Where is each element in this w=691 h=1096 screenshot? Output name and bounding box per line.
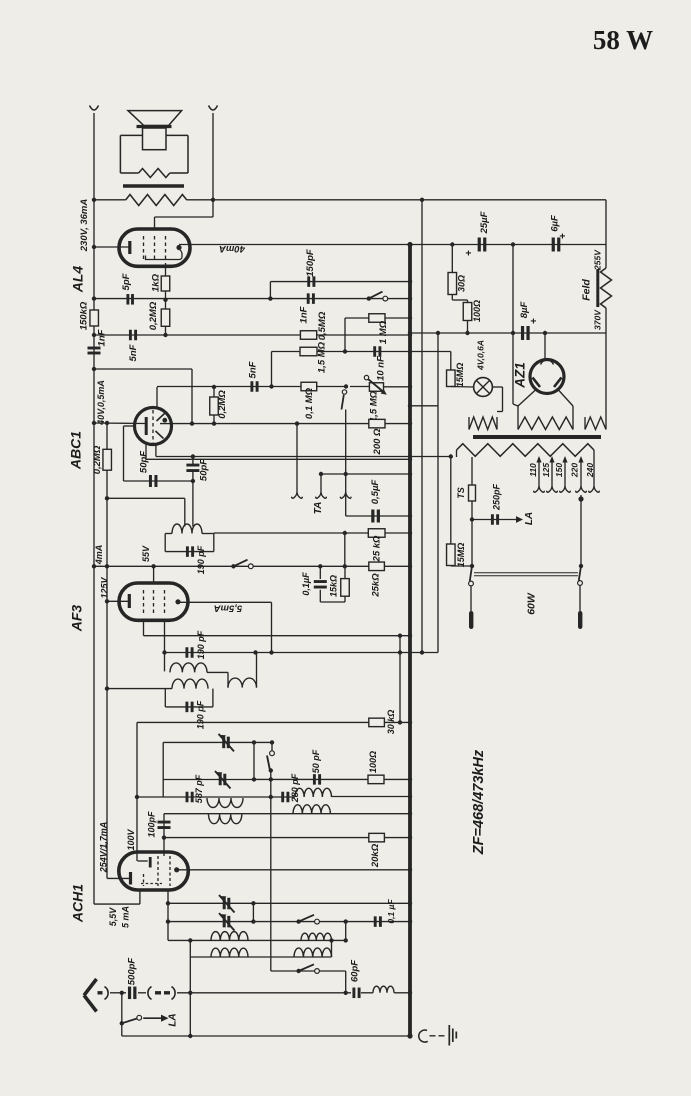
svg-text:100Ω: 100Ω (368, 751, 378, 773)
svg-text:150kΩ: 150kΩ (79, 301, 90, 330)
svg-text:AF3: AF3 (69, 605, 85, 633)
svg-text:190 pF: 190 pF (196, 545, 206, 574)
svg-text:0,5MΩ: 0,5MΩ (317, 311, 328, 340)
svg-text:5,5V: 5,5V (108, 907, 118, 927)
svg-text:100pF: 100pF (146, 811, 156, 838)
svg-text:30 kΩ: 30 kΩ (386, 710, 396, 735)
svg-text:190 pF: 190 pF (195, 700, 205, 729)
svg-text:58 W: 58 W (593, 25, 653, 55)
svg-text:1nF: 1nF (97, 329, 108, 346)
svg-text:190 pF: 190 pF (196, 630, 206, 659)
svg-text:4V,0,6A: 4V,0,6A (475, 340, 485, 371)
svg-text:AL4: AL4 (70, 266, 86, 294)
svg-text:5nF: 5nF (128, 344, 139, 361)
svg-text:0,2MΩ: 0,2MΩ (148, 301, 159, 330)
svg-text:5 mA: 5 mA (120, 906, 130, 928)
svg-text:LA: LA (524, 512, 535, 525)
svg-text:8µF: 8µF (519, 302, 530, 319)
svg-text:100Ω: 100Ω (472, 300, 482, 322)
svg-text:1 MΩ: 1 MΩ (378, 320, 389, 344)
svg-text:LA: LA (168, 1013, 179, 1026)
svg-text:587 pF: 587 pF (194, 774, 204, 803)
svg-text:5,5mA: 5,5mA (214, 602, 243, 613)
svg-text:60W: 60W (525, 592, 537, 615)
svg-text:0,1µF: 0,1µF (301, 572, 311, 596)
svg-text:25µF: 25µF (479, 211, 490, 234)
svg-text:AZ1: AZ1 (513, 362, 528, 389)
svg-text:6µF: 6µF (550, 215, 561, 232)
svg-text:5pF: 5pF (121, 273, 132, 290)
svg-text:100V: 100V (126, 828, 136, 850)
svg-text:370V: 370V (592, 309, 602, 330)
svg-text:110: 110 (528, 463, 538, 477)
svg-text:4mA: 4mA (94, 545, 104, 566)
svg-text:50pF: 50pF (139, 451, 150, 473)
svg-text:25 kΩ: 25 kΩ (372, 535, 383, 562)
svg-text:20kΩ: 20kΩ (370, 843, 381, 868)
svg-text:50 pF: 50 pF (311, 749, 321, 773)
svg-text:1nF: 1nF (299, 306, 310, 323)
svg-text:255V: 255V (592, 249, 602, 271)
svg-text:0,1 µF: 0,1 µF (386, 899, 396, 924)
svg-text:15MΩ: 15MΩ (455, 363, 465, 388)
svg-text:230V, 36mA: 230V, 36mA (79, 199, 90, 253)
svg-text:220: 220 (569, 463, 579, 478)
svg-text:55V: 55V (141, 545, 151, 562)
svg-text:254V/1,7mA: 254V/1,7mA (98, 822, 108, 874)
svg-text:25kΩ: 25kΩ (371, 573, 382, 598)
svg-text:+: + (464, 250, 475, 256)
svg-text:0,5µF: 0,5µF (370, 480, 381, 505)
svg-text:TA: TA (313, 502, 324, 515)
svg-text:240: 240 (585, 463, 595, 478)
svg-text:15MΩ: 15MΩ (456, 543, 466, 568)
svg-text:40V,0,5mA: 40V,0,5mA (96, 380, 106, 426)
svg-text:0,2MΩ: 0,2MΩ (92, 445, 103, 474)
svg-text:125: 125 (541, 463, 551, 477)
svg-text:TS: TS (456, 487, 466, 499)
svg-text:1,5 MΩ: 1,5 MΩ (317, 341, 328, 373)
svg-text:500pF: 500pF (127, 958, 138, 986)
svg-text:60pF: 60pF (349, 960, 360, 982)
svg-text:30Ω: 30Ω (456, 275, 466, 292)
svg-text:125V: 125V (99, 576, 109, 598)
svg-text:Feld: Feld (580, 279, 592, 301)
svg-text:+: + (529, 318, 540, 324)
svg-text:150: 150 (554, 463, 564, 477)
svg-text:ACH1: ACH1 (70, 884, 86, 923)
svg-text:250pF: 250pF (491, 483, 501, 511)
svg-text:1kΩ: 1kΩ (151, 273, 162, 292)
svg-text:150pF: 150pF (305, 249, 316, 277)
svg-text:+: + (558, 233, 569, 239)
svg-text:ZF=468/473kHz: ZF=468/473kHz (471, 749, 487, 855)
svg-text:50pF: 50pF (199, 459, 210, 481)
svg-text:200 Ω: 200 Ω (372, 428, 383, 455)
svg-text:15kΩ: 15kΩ (328, 575, 338, 597)
svg-text:10 nF: 10 nF (376, 356, 387, 381)
svg-text:ABC1: ABC1 (68, 431, 84, 470)
svg-text:1,5 MΩ: 1,5 MΩ (369, 390, 380, 422)
svg-text:0,1 MΩ: 0,1 MΩ (304, 387, 315, 419)
svg-text:0,2MΩ: 0,2MΩ (217, 390, 228, 419)
svg-text:5nF: 5nF (248, 361, 259, 378)
